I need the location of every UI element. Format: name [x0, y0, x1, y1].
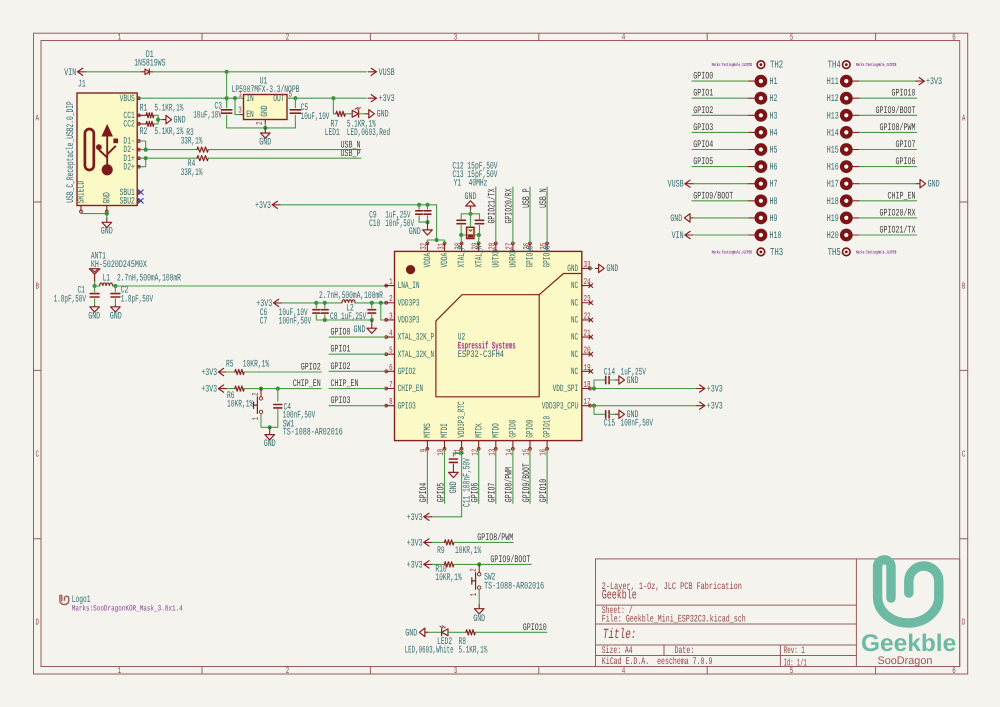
svg-text:2: 2 [286, 33, 290, 43]
USB symbol oval [85, 129, 94, 170]
U1 OUT wire to +3V3 [287, 97, 366, 99]
wire L1 to LNA_IN [115, 285, 385, 287]
svg-text:VDD3P3_CPU: VDD3P3_CPU [542, 400, 579, 411]
svg-text:USB_C_Receptacle_USB2.0_DIP: USB_C_Receptacle_USB2.0_DIP [65, 101, 77, 202]
svg-text:B: B [962, 281, 966, 291]
wire R8 to GPIO10 label [475, 631, 547, 633]
svg-text:5.1KR,1%: 5.1KR,1% [155, 127, 184, 138]
ground symbol below U1 [264, 128, 266, 133]
U2 pin 18 VDD_SPI [582, 388, 591, 390]
svg-text:VDDA: VDDA [422, 253, 433, 268]
svg-text:TH3: TH3 [770, 247, 783, 259]
wire crystal pins to XTAL pins [460, 235, 462, 240]
svg-text:SBU2: SBU2 [120, 195, 135, 206]
svg-text:TS-1088-AR02016: TS-1088-AR02016 [484, 582, 544, 593]
header H5 [748, 149, 754, 151]
global label +3V3 at VDD3P3_CPU [700, 402, 705, 409]
svg-text:Date:: Date: [675, 646, 695, 657]
svg-text:1: 1 [251, 417, 261, 421]
header H6 [748, 166, 754, 168]
J1 pin SBU1 [137, 191, 140, 193]
svg-text:GPIO3: GPIO3 [398, 400, 416, 411]
svg-text:GPIO2: GPIO2 [331, 362, 351, 373]
svg-text:SooDragon: SooDragon [878, 655, 933, 667]
J1 pin D2- [137, 149, 140, 151]
svg-text:LED,0603,Red: LED,0603,Red [347, 127, 390, 139]
wire and net label GPIO9/BOOT at H8 [692, 200, 748, 202]
svg-text:+3V3: +3V3 [926, 77, 942, 88]
wire +3V3 to R6 [227, 388, 235, 390]
svg-text:10KR,1%: 10KR,1% [455, 546, 481, 557]
svg-text:Y1 40MHz: Y1 40MHz [454, 179, 488, 190]
svg-text:GPIO9: GPIO9 [525, 419, 536, 437]
U2 pin 6 GPIO2 [386, 370, 395, 372]
svg-text:GPIO0: GPIO0 [331, 328, 351, 339]
J1 pin SBU2 [137, 200, 140, 202]
svg-text:USB_P: USB_P [341, 149, 361, 160]
svg-text:2.7nH,500mA,100mR: 2.7nH,500mA,100mR [117, 273, 181, 284]
header H15 [840, 143, 853, 156]
svg-text:GND: GND [627, 376, 639, 387]
LED LED1 [352, 110, 358, 117]
wire VUSB line down to VBUS rail [226, 72, 228, 108]
J1 pin D2+ [137, 166, 140, 168]
svg-text:8: 8 [389, 397, 393, 407]
svg-text:H19: H19 [827, 214, 839, 225]
U2 pin 8 GPIO3 [386, 405, 395, 407]
svg-text:19: 19 [584, 363, 591, 373]
junction at VUSB column [225, 70, 229, 74]
wire and net label GPIO4 at H5 [692, 149, 748, 151]
wire EN to IN rail [235, 98, 240, 114]
svg-text:+3V3: +3V3 [379, 94, 395, 105]
svg-text:CHIP_EN: CHIP_EN [398, 383, 424, 394]
ground symbol below SW2 [478, 605, 480, 609]
U2 pin 21 NC [582, 336, 591, 338]
svg-text:VIN: VIN [64, 68, 76, 79]
svg-text:GPIO7: GPIO7 [896, 140, 916, 151]
svg-text:1: 1 [469, 593, 479, 597]
wire and net label GPIO9/BOOT at bottom [529, 449, 531, 503]
wire cap bottoms rail [316, 319, 372, 321]
svg-text:H9: H9 [770, 214, 778, 225]
svg-text:U0RXD: U0RXD [508, 249, 519, 267]
wire SHIELD to GND junction [81, 212, 107, 215]
J1 pin D1+ [137, 157, 140, 159]
svg-text:21: 21 [584, 328, 591, 338]
wire C9 C10 join to gnd [419, 221, 427, 223]
wire R10 to GPIO9/BOOT label [454, 563, 531, 565]
wire and net label GPIO6 at bottom [478, 449, 480, 503]
header H13 [840, 109, 853, 122]
wire and net label GPIO6 at H16 [860, 166, 917, 168]
svg-text:GPIO18: GPIO18 [542, 245, 553, 267]
wire D1+ to R4 [140, 157, 197, 159]
svg-text:H13: H13 [827, 111, 839, 122]
global label GND at C15 [619, 410, 625, 418]
svg-text:C15: C15 [604, 419, 615, 430]
resistor R9 [445, 540, 454, 545]
wire and net label GPIO2 at H3 [692, 114, 748, 116]
wire and net label GPIO3 at H4 [692, 131, 748, 133]
svg-text:GND: GND [88, 311, 100, 322]
wire D2+ jog [140, 158, 145, 167]
svg-text:XTAL_32K_P: XTAL_32K_P [398, 332, 435, 343]
svg-text:GPIO7: GPIO7 [488, 483, 499, 502]
svg-text:H5: H5 [770, 146, 778, 157]
svg-text:1: 1 [118, 666, 122, 676]
svg-text:1.8pF,50V: 1.8pF,50V [121, 295, 153, 306]
ground symbol below C11 [449, 472, 459, 477]
header H10 [748, 234, 754, 236]
svg-text:GND: GND [627, 410, 639, 421]
svg-text:4: 4 [389, 328, 393, 338]
svg-text:R5: R5 [226, 360, 234, 371]
svg-text:Marks:TestingHole_JLCPCB: Marks:TestingHole_JLCPCB [712, 62, 752, 68]
svg-text:6: 6 [389, 363, 393, 373]
global label GND at CC divider [166, 115, 172, 123]
svg-text:GPIO10: GPIO10 [523, 623, 547, 634]
svg-text:GPIO8/PWM: GPIO8/PWM [477, 532, 513, 544]
crystal Y1 [470, 214, 472, 228]
U2 pin 11 VDD3P3_RTC [461, 441, 463, 450]
svg-text:GND: GND [606, 264, 618, 275]
svg-text:File: Geekble_Mini_ESP32C3.kic: File: Geekble_Mini_ESP32C3.kicad_sch [602, 614, 746, 626]
capacitor C9 [418, 205, 420, 210]
svg-text:Marks:SooDragonKOR_Mask_3.8x1.: Marks:SooDragonKOR_Mask_3.8x1.4 [72, 605, 183, 614]
svg-text:D: D [962, 617, 966, 627]
wire +3V3 to L2 [282, 302, 342, 304]
svg-text:R9: R9 [437, 546, 445, 557]
svg-text:5: 5 [389, 346, 393, 356]
header H20 [840, 229, 853, 242]
svg-text:22: 22 [584, 311, 591, 321]
svg-text:GPIO3: GPIO3 [331, 396, 351, 407]
svg-text:R1: R1 [140, 103, 148, 114]
svg-text:CHIP_EN: CHIP_EN [331, 379, 359, 390]
wire and net label GPIO4 at bottom [426, 449, 428, 503]
svg-text:GPIO20/RX: GPIO20/RX [504, 188, 516, 223]
U2 pin 12 MTCK [478, 441, 480, 450]
wire LED1 to GND [359, 113, 364, 115]
IC U2 body [395, 251, 582, 440]
wire and net label GPIO1 at H2 [692, 97, 748, 99]
U2 pin 9 MTMS [426, 441, 428, 450]
U2 pin 1 LNA_IN [386, 285, 395, 287]
header H3 [748, 114, 754, 116]
USB symbol trident [96, 126, 118, 174]
svg-text:J1: J1 [78, 80, 86, 91]
svg-text:1uF,25V: 1uF,25V [341, 312, 366, 323]
svg-text:GND: GND [377, 110, 389, 121]
svg-text:Marks:TestingHole_JLCPCB: Marks:TestingHole_JLCPCB [712, 249, 752, 255]
wire GPIO2 to pin6 [329, 370, 386, 372]
svg-text:C11 100nF,50V: C11 100nF,50V [463, 458, 474, 507]
svg-text:Marks:TestingHole_JLCPCB: Marks:TestingHole_JLCPCB [856, 62, 896, 68]
svg-text:GPIO5: GPIO5 [693, 157, 713, 168]
svg-text:Geekble: Geekble [602, 588, 637, 603]
svg-text:GPIO2: GPIO2 [398, 366, 416, 377]
svg-text:NC: NC [571, 280, 578, 291]
header H11 [840, 75, 853, 88]
global label GND at pin33 [590, 267, 592, 269]
wire +3V3 rail to VDDA pins [281, 205, 437, 240]
wire antenna to L1 node [94, 282, 96, 287]
svg-text:H10: H10 [770, 231, 782, 242]
wire to R7 [332, 98, 334, 114]
svg-text:LNA_IN: LNA_IN [398, 280, 420, 291]
U2 pin 31 VDDA [444, 243, 446, 252]
U2 pin 7 CHIP_EN [386, 388, 395, 390]
ground symbol below C8 [371, 320, 373, 328]
J1 pin CC2 [137, 123, 140, 125]
U2 pin 22 NC [582, 319, 591, 321]
svg-text:1: 1 [389, 277, 393, 287]
inductor L1 [95, 285, 100, 287]
svg-text:4: 4 [622, 33, 626, 43]
svg-text:1N5819WS: 1N5819WS [134, 59, 165, 70]
svg-text:GPIO6: GPIO6 [896, 157, 916, 168]
testpoint TH3 [757, 248, 765, 256]
testpoint TH5 [843, 248, 851, 256]
svg-text:C8: C8 [330, 312, 338, 323]
svg-text:NC: NC [571, 315, 578, 326]
svg-text:SHIELD: SHIELD [77, 181, 88, 204]
svg-text:NC: NC [571, 349, 578, 360]
svg-text:CHIP_EN: CHIP_EN [888, 191, 916, 202]
svg-text:10KR,1%: 10KR,1% [227, 399, 253, 410]
wire VDD3P3_CPU to +3V3 [590, 405, 696, 407]
svg-text:C10: C10 [369, 219, 380, 230]
svg-text:27: 27 [505, 243, 515, 250]
ground symbol below C10 [427, 222, 429, 230]
resistor R8 [466, 630, 475, 635]
svg-text:GND: GND [174, 115, 186, 126]
U2 pin 19 NC [582, 370, 591, 372]
svg-text:1: 1 [238, 90, 242, 100]
resistor R2 [140, 123, 146, 125]
svg-text:H20: H20 [827, 231, 839, 242]
svg-text:U0TXD: U0TXD [490, 249, 501, 267]
svg-text:31: 31 [436, 243, 446, 250]
wire CHIP_EN to pin7 [329, 388, 386, 390]
svg-text:GPIO20/RX: GPIO20/RX [880, 207, 916, 219]
svg-text:A: A [35, 113, 39, 123]
svg-text:+3V3: +3V3 [707, 402, 723, 413]
wire GPIO1 to pin5 [329, 353, 386, 355]
svg-text:GPIO21/TX: GPIO21/TX [880, 225, 916, 237]
testpoint TH2 [757, 61, 765, 69]
svg-text:GPIO3: GPIO3 [693, 123, 713, 134]
svg-text:C: C [962, 449, 966, 459]
svg-text:CC2: CC2 [123, 119, 135, 130]
U2 pin 16 GPIO10 [546, 441, 548, 450]
svg-text:VUSB: VUSB [379, 68, 395, 79]
wire and net label GPIO5 at bottom [444, 449, 446, 503]
U2 pin 14 GPIO8 [512, 441, 514, 450]
wire D2- to R3 [140, 149, 197, 151]
resistor R1 [140, 114, 146, 116]
global label VUSB [371, 68, 376, 75]
svg-text:MTMS: MTMS [422, 423, 433, 438]
U2 pin1 dot [406, 265, 415, 274]
svg-text:VUSB: VUSB [668, 180, 684, 191]
U2 pin 25 GPIO18 [546, 243, 548, 252]
svg-text:XTAL_N: XTAL_N [473, 246, 484, 268]
wire and net label GPIO7 at bottom [495, 449, 497, 503]
svg-text:GND: GND [101, 227, 113, 238]
svg-text:MTDO: MTDO [490, 423, 501, 438]
resistor R10 [445, 562, 454, 567]
svg-text:H4: H4 [770, 128, 778, 139]
svg-text:33: 33 [584, 260, 591, 270]
capacitor C5 [294, 98, 296, 108]
ground symbol below C2 [114, 306, 116, 307]
Geekble logo mark [878, 560, 939, 623]
wire R3 to USB_N label [208, 149, 361, 151]
svg-text:GPIO8/PWM: GPIO8/PWM [880, 122, 916, 134]
wire VBUS to U1 IN [140, 97, 243, 99]
ground symbol below J1 [106, 218, 108, 222]
header H8 [748, 200, 754, 202]
inductor L2 [342, 300, 355, 303]
U2 pin 28 U0TXD [495, 243, 497, 252]
U2 pin 29 XTAL_N [478, 243, 480, 252]
U2 pin 23 NC [582, 302, 591, 304]
global label +3V3 at VDD_SPI [700, 385, 705, 392]
diode D1 [141, 71, 145, 73]
svg-text:XTAL_P: XTAL_P [456, 245, 467, 267]
svg-text:R2: R2 [140, 127, 148, 138]
wire and net label CHIP_EN at H18 [860, 200, 917, 202]
svg-text:GPIO9/BOOT: GPIO9/BOOT [521, 463, 533, 502]
svg-text:H3: H3 [770, 111, 778, 122]
svg-text:H16: H16 [827, 163, 839, 174]
resistor R3 [197, 147, 208, 152]
wire and net label USB_P at top [529, 187, 531, 243]
svg-text:OUT: OUT [273, 93, 285, 104]
capacitor C15 [594, 406, 606, 415]
svg-text:GND: GND [110, 311, 122, 322]
svg-text:GPIO8: GPIO8 [508, 419, 519, 437]
svg-text:100nF,50V: 100nF,50V [279, 317, 311, 328]
svg-text:2.7nH,500mA,100mR: 2.7nH,500mA,100mR [319, 291, 383, 302]
svg-text:H15: H15 [827, 146, 839, 157]
svg-text:5.1KR,1%: 5.1KR,1% [155, 103, 184, 114]
svg-text:H6: H6 [770, 163, 778, 174]
svg-text:H14: H14 [827, 128, 839, 139]
capacitor C6 [315, 303, 317, 308]
wire and net label GPIO0 at H1 [692, 80, 748, 82]
capacitor C4 [277, 389, 279, 402]
svg-text:+3V3: +3V3 [201, 368, 217, 379]
svg-text:H1: H1 [770, 77, 778, 88]
wire LED2 to R8 [448, 631, 466, 633]
U2 gnd corner line [539, 274, 582, 295]
svg-text:B: B [35, 281, 39, 291]
svg-text:Geekble: Geekble [861, 630, 956, 657]
svg-text:H12: H12 [827, 94, 839, 105]
svg-text:H2: H2 [770, 94, 778, 105]
capacitor C12 [457, 219, 465, 221]
svg-text:GND: GND [354, 325, 366, 336]
svg-text:33R,1%: 33R,1% [181, 168, 203, 179]
wire U1 ground rail [264, 123, 266, 128]
svg-text:1.8pF,50V: 1.8pF,50V [54, 295, 86, 306]
header H4 [748, 131, 754, 133]
svg-text:18: 18 [584, 380, 591, 390]
svg-text:IN: IN [246, 93, 254, 104]
header H16 [840, 160, 853, 173]
capacitor C14 [594, 380, 606, 389]
wire GPIO0 to pin4 [329, 336, 386, 338]
svg-text:TH5: TH5 [828, 247, 841, 259]
svg-text:ESP32-C3FH4: ESP32-C3FH4 [458, 350, 504, 361]
svg-text:H18: H18 [827, 197, 839, 208]
header H1 [748, 80, 754, 82]
svg-text:USB_N: USB_N [539, 188, 550, 208]
header H18 [840, 194, 853, 207]
svg-text:2: 2 [469, 568, 479, 572]
U2 pin 33 GND [582, 267, 591, 269]
frame row ticks [34, 201, 42, 203]
wire R9 to GPIO8/PWM label [454, 541, 513, 543]
svg-text:VDD3P3: VDD3P3 [398, 315, 420, 326]
capacitor C3 [226, 98, 228, 108]
capacitor C2 [114, 286, 116, 292]
svg-text:23: 23 [584, 294, 591, 304]
U2 pin 4 XTAL_32K_P [386, 336, 395, 338]
switch SW2 [478, 564, 480, 572]
svg-text:VDDA: VDDA [439, 253, 450, 268]
no-connect SBU1 [138, 190, 143, 195]
U2 pin 13 MTDO [495, 441, 497, 450]
svg-text:H8: H8 [770, 197, 778, 208]
header H7 [748, 183, 754, 185]
svg-text:Marks:TestingHole_JLCPCB: Marks:TestingHole_JLCPCB [856, 249, 896, 255]
svg-text:10KR,1%: 10KR,1% [435, 573, 461, 584]
svg-text:NC: NC [571, 332, 578, 343]
capacitor C11 [453, 453, 461, 457]
svg-text:GPIO1: GPIO1 [693, 89, 713, 100]
J1 pin CC1 [137, 114, 140, 116]
svg-text:GPIO2: GPIO2 [693, 106, 713, 117]
global label GND at H17 [860, 183, 917, 185]
svg-text:20: 20 [584, 346, 591, 356]
svg-text:VDD3P3: VDD3P3 [398, 297, 420, 308]
svg-text:Id: 1/1: Id: 1/1 [784, 658, 807, 670]
connector J1 body [77, 93, 137, 206]
U2 pin 5 XTAL_32K_N [386, 353, 395, 355]
svg-text:1: 1 [118, 33, 122, 43]
wire R4 to USB_P label [208, 157, 361, 159]
svg-text:32: 32 [419, 243, 429, 250]
header H19 [840, 212, 853, 225]
svg-text:NC: NC [571, 297, 578, 308]
header H12 [840, 92, 853, 105]
svg-text:33R,1%: 33R,1% [181, 137, 203, 148]
wire and net label GPIO20/RX at top [512, 187, 514, 243]
svg-text:C: C [35, 449, 39, 459]
wire and net label GPIO10 at bottom [546, 449, 548, 503]
svg-text:GPIO0: GPIO0 [693, 72, 713, 83]
LED LED2 [442, 629, 448, 636]
wire L2 to VDD3P3 pin2 [355, 302, 386, 304]
U2 pin 10 MTDI [444, 441, 446, 450]
svg-text:GND: GND [928, 180, 940, 191]
svg-text:VIN: VIN [672, 231, 684, 242]
svg-text:H11: H11 [827, 77, 839, 88]
